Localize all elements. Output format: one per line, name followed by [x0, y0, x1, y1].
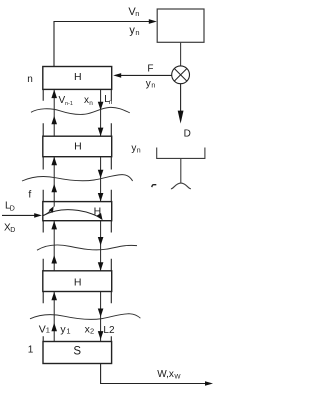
- svg-text:f: f: [28, 189, 31, 201]
- svg-text:F: F: [147, 64, 153, 75]
- svg-text:D: D: [10, 227, 15, 234]
- svg-text:H: H: [94, 205, 102, 217]
- svg-text:V: V: [39, 323, 46, 335]
- svg-text:1: 1: [66, 327, 70, 336]
- svg-text:2: 2: [90, 327, 94, 336]
- svg-text:n: n: [89, 100, 93, 107]
- svg-text:W,x: W,x: [157, 369, 174, 380]
- svg-text:y: y: [131, 143, 136, 154]
- svg-text:S: S: [73, 346, 81, 358]
- svg-text:D: D: [184, 128, 191, 139]
- svg-text:1: 1: [28, 345, 34, 356]
- svg-text:H: H: [74, 71, 82, 83]
- svg-text:n-1: n-1: [65, 101, 73, 107]
- svg-text:n: n: [151, 83, 155, 90]
- svg-text:D: D: [10, 205, 15, 212]
- svg-text:n: n: [109, 99, 113, 106]
- svg-text:n: n: [27, 74, 33, 85]
- svg-text:H: H: [74, 141, 82, 153]
- svg-text:1: 1: [46, 325, 50, 334]
- svg-text:y: y: [146, 78, 151, 89]
- svg-text:x: x: [84, 95, 89, 106]
- svg-text:n: n: [135, 28, 139, 37]
- svg-text:H: H: [74, 276, 82, 288]
- svg-text:L2: L2: [103, 325, 115, 336]
- svg-text:n: n: [137, 147, 141, 154]
- svg-text:W: W: [174, 374, 181, 381]
- svg-text:n: n: [135, 9, 139, 18]
